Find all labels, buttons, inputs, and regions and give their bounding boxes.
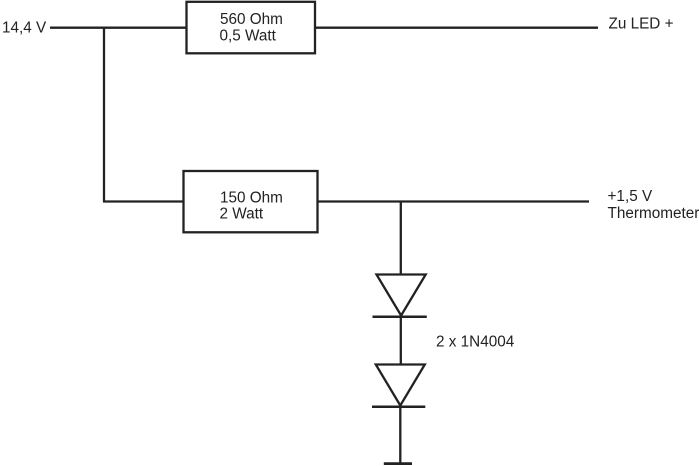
svg-text:+1,5 V: +1,5 V — [608, 188, 653, 205]
resistor R1 560 Ohm 0,5 Watt — [187, 2, 316, 54]
wire — [400, 317, 402, 364]
wire — [103, 27, 105, 202]
wire — [400, 201, 402, 275]
svg-text:Thermometer: Thermometer — [608, 205, 699, 222]
svg-text:0,5 Watt: 0,5 Watt — [220, 27, 277, 44]
wire — [103, 200, 184, 202]
svg-text:2 x 1N4004: 2 x 1N4004 — [436, 333, 515, 350]
svg-text:2 Watt: 2 Watt — [220, 206, 264, 223]
svg-text:560 Ohm: 560 Ohm — [220, 11, 283, 28]
wire — [399, 407, 401, 463]
wire — [50, 27, 187, 29]
svg-text:150 Ohm: 150 Ohm — [220, 190, 283, 207]
resistor R2 150 Ohm 2 Watt — [184, 171, 318, 232]
wire — [315, 27, 598, 29]
svg-text:Zu LED +: Zu LED + — [609, 16, 674, 33]
node +1,5 V Thermometer — [608, 188, 699, 222]
wire — [318, 200, 590, 202]
diode D2 1N4004 — [372, 365, 425, 407]
diode D1 1N4004 — [373, 275, 427, 317]
ground — [384, 462, 412, 465]
svg-text:14,4 V: 14,4 V — [2, 20, 47, 37]
